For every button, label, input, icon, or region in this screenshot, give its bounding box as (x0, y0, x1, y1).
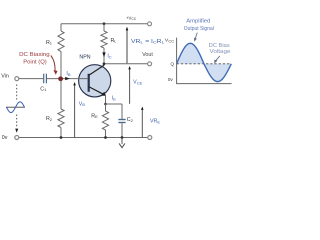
svg-text:0v: 0v (2, 135, 8, 141)
svg-text:VB: VB (79, 101, 86, 107)
svg-text:NPN: NPN (79, 55, 90, 61)
svg-text:DC Biasing: DC Biasing (19, 52, 50, 58)
svg-text:VCE: VCE (133, 80, 142, 86)
svg-text:RE: RE (91, 113, 98, 119)
svg-text:+VCC: +VCC (126, 15, 137, 21)
svg-text:VRE: VRE (150, 119, 160, 125)
svg-text:Voltage: Voltage (210, 49, 231, 55)
svg-text:R2: R2 (46, 116, 53, 122)
svg-text:Point (Q): Point (Q) (23, 60, 47, 66)
svg-text:IB: IB (66, 71, 70, 77)
svg-text:Vin: Vin (1, 74, 9, 80)
svg-text:C2: C2 (127, 117, 134, 123)
svg-text:VCC: VCC (165, 38, 175, 44)
svg-text:Output Signal: Output Signal (184, 26, 214, 32)
svg-text:R1: R1 (46, 40, 53, 46)
svg-text:IC: IC (107, 54, 111, 60)
svg-text:DC Bias: DC Bias (209, 43, 230, 49)
svg-text:RL: RL (110, 38, 117, 44)
svg-text:Amplified: Amplified (186, 19, 210, 25)
svg-text:C1: C1 (40, 86, 47, 92)
svg-text:0v: 0v (168, 77, 174, 83)
svg-text:Q: Q (170, 62, 174, 68)
svg-text:IE: IE (112, 96, 116, 102)
svg-text:VRL = ICRL: VRL = ICRL (131, 39, 165, 45)
svg-text:Vout: Vout (142, 52, 153, 58)
